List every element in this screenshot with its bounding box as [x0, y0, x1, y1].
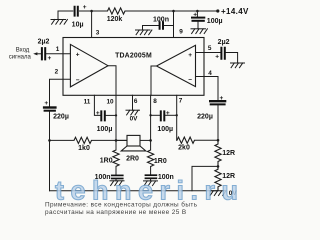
wire pin 5 — [196, 52, 221, 54]
svg-text:рассчитаны на напряжение не ме: рассчитаны на напряжение не менее 25 В — [45, 209, 187, 216]
loudspeaker 2R0 — [116, 135, 151, 162]
node junction speaker right — [149, 139, 152, 142]
wire — [80, 10, 108, 12]
ground under 2µ2 right — [231, 63, 245, 68]
svg-text:−: − — [188, 77, 192, 84]
wire — [38, 53, 41, 55]
resistor 12R lower — [215, 166, 235, 190]
wire A1 output to pin 10 — [108, 66, 116, 96]
node junction 220µ / 2k0 / 12R — [217, 139, 220, 142]
wire 12R midpoint to ground rail — [192, 166, 218, 190]
svg-text:100µ: 100µ — [207, 18, 223, 25]
resistor 12R upper — [215, 140, 235, 166]
op-amp A2 triangle — [157, 45, 196, 86]
svg-text:+: + — [48, 55, 52, 62]
resistor 1R0 left — [100, 140, 119, 166]
wire — [125, 10, 218, 12]
wire pin 3 — [91, 11, 93, 38]
svg-text:−: − — [76, 77, 80, 84]
svg-text:6: 6 — [134, 98, 138, 105]
resistor 2k0 — [177, 137, 195, 152]
capacitor C3 220µ left — [43, 100, 69, 121]
capacitor 100n top — [143, 17, 174, 30]
svg-text:1: 1 — [56, 46, 60, 53]
node junction supply cap — [196, 10, 199, 13]
svg-text:100µ: 100µ — [97, 126, 113, 133]
svg-text:4: 4 — [208, 70, 212, 77]
wire pin 9 — [173, 11, 175, 38]
capacitor C supply 100µ — [191, 11, 223, 29]
wire pin 8 down — [150, 95, 152, 140]
capacitor 2µ2 right — [215, 39, 237, 63]
svg-text:сигнала: сигнала — [9, 54, 32, 60]
capacitor C5 100µ bootstrap right — [151, 110, 177, 133]
svg-text:10µ: 10µ — [72, 21, 84, 28]
svg-text:2µ2: 2µ2 — [218, 39, 230, 46]
wire — [92, 139, 128, 141]
svg-text:3: 3 — [96, 30, 100, 37]
ground under 100n top — [136, 26, 152, 35]
ground under 100n left — [110, 181, 124, 186]
svg-text:2µ2: 2µ2 — [38, 39, 50, 46]
wire left rail down — [49, 112, 51, 191]
pin 11 stub — [94, 95, 100, 115]
wire A2 output to pin 8 — [151, 66, 157, 95]
resistor 120k — [107, 8, 125, 23]
svg-text:+: + — [193, 12, 197, 19]
op-amp A1 triangle — [70, 44, 108, 87]
svg-text:8: 8 — [153, 98, 157, 105]
wire pin 1 — [46, 53, 70, 55]
svg-text:+: + — [188, 52, 192, 59]
wire — [195, 139, 219, 141]
svg-text:100n: 100n — [153, 17, 169, 24]
capacitor 100n right zobel — [145, 167, 174, 182]
svg-text:2R0: 2R0 — [126, 156, 139, 163]
svg-text:11: 11 — [84, 98, 91, 105]
node junction pin9 / rail — [172, 10, 175, 13]
svg-text:9: 9 — [179, 28, 183, 35]
svg-text:220µ: 220µ — [197, 113, 213, 120]
capacitor C4 100µ bootstrap left — [96, 110, 116, 133]
ground under 100n right — [144, 181, 158, 186]
node junction pin8 / bootstrap cap right — [149, 114, 151, 116]
svg-text:220µ: 220µ — [53, 114, 69, 121]
op-amp IC TDA2005M body — [63, 38, 204, 96]
pin 6 stub — [132, 95, 134, 110]
wire pin 7 down — [176, 95, 178, 140]
wire pin 4 — [196, 77, 219, 101]
resistor 1R0 right — [148, 140, 167, 166]
svg-text:+14.4V: +14.4V — [221, 7, 249, 16]
svg-text:12R: 12R — [222, 150, 235, 157]
wire pin 2 — [50, 79, 71, 106]
svg-text:+: + — [220, 95, 224, 102]
input terminal arrow — [33, 52, 37, 55]
wire bottom ground rail — [50, 190, 218, 192]
wire — [50, 139, 75, 141]
node junction top rail / pin3 — [90, 10, 93, 13]
resistor 1k0 — [74, 137, 92, 152]
node junction pin10 / bootstrap cap — [115, 114, 117, 116]
svg-text:Вход: Вход — [16, 48, 30, 54]
svg-text:+: + — [44, 100, 48, 107]
svg-text:+: + — [83, 4, 87, 11]
capacitor C2 10µ — [72, 4, 87, 28]
svg-text:5: 5 — [208, 45, 212, 52]
svg-text:+: + — [215, 54, 219, 61]
node junction speaker left / pin10 — [115, 139, 118, 142]
capacitor C7 220µ right — [197, 95, 226, 140]
svg-text:0V: 0V — [130, 116, 139, 123]
ground 0V bottom right — [210, 190, 238, 197]
svg-text:1k0: 1k0 — [78, 145, 90, 152]
svg-text:+: + — [96, 110, 100, 117]
ground under supply cap — [191, 29, 207, 34]
node junction pin7 / cap — [176, 114, 178, 116]
svg-text:1R0: 1R0 — [100, 157, 113, 164]
wire — [58, 10, 73, 12]
node junction left rail / 1k0 — [48, 139, 51, 142]
svg-text:1R0: 1R0 — [154, 158, 167, 165]
svg-text:100µ: 100µ — [157, 126, 173, 133]
capacitor C1 2µ2 input — [38, 39, 52, 63]
capacitor 100n left zobel — [95, 166, 124, 180]
svg-text:2k0: 2k0 — [178, 145, 190, 152]
svg-text:10: 10 — [106, 98, 114, 105]
ground 0V pin6 — [126, 110, 140, 123]
ground G1 top-left — [51, 11, 67, 24]
node +14.4V terminal — [216, 9, 219, 12]
svg-text:TDA2005M: TDA2005M — [115, 52, 152, 59]
svg-text:7: 7 — [179, 97, 183, 104]
svg-text:120k: 120k — [107, 16, 123, 23]
svg-text:2: 2 — [55, 69, 59, 76]
svg-text:Примечание: все конденсаторы д: Примечание: все конденсаторы должны быть — [45, 201, 198, 209]
node junction 12R midpoint — [217, 165, 220, 168]
wire pin 10 down — [115, 95, 117, 140]
svg-text:+: + — [166, 110, 170, 117]
svg-text:+: + — [76, 52, 80, 59]
